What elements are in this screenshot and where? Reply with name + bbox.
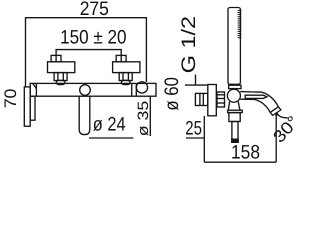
left valve hex nut — [54, 73, 67, 81]
spout slot detail — [245, 95, 267, 98]
wall flange cover — [30, 96, 35, 120]
extension line spout tip — [275, 113, 277, 162]
bar left elbow edge — [35, 83, 37, 96]
spout side view — [240, 92, 281, 116]
svg-text:275: 275 — [80, 0, 109, 20]
hose cone below body — [228, 102, 240, 111]
wall plate side view ø60 — [208, 85, 217, 116]
svg-text:25: 25 — [185, 118, 202, 140]
dimension 275 extension/dim lines — [26, 18, 147, 87]
hose upper cylinder — [229, 113, 240, 122]
leader line for ø 35 — [149, 96, 151, 136]
leader line for ø 24 — [89, 137, 134, 139]
spout cylinder front view — [79, 96, 90, 134]
svg-text:30°: 30° — [269, 112, 300, 146]
hose lip — [228, 110, 243, 112]
body bar front view — [30, 83, 156, 96]
hose tube — [232, 122, 238, 140]
end knob circle ø35 — [136, 82, 147, 93]
hose end fitting — [232, 139, 239, 142]
hose nut adapter — [217, 92, 225, 107]
G1/2 nipple — [195, 93, 207, 105]
left valve escutcheon — [48, 62, 75, 73]
left valve top nut — [51, 55, 61, 61]
svg-text:ø 60: ø 60 — [161, 77, 183, 111]
extension line wall — [203, 116, 205, 162]
svg-text:ø 35: ø 35 — [135, 101, 152, 137]
body circle side view — [227, 89, 240, 102]
right valve dome collar — [121, 80, 130, 84]
shower holder band — [229, 85, 241, 88]
30 degree arrowhead — [275, 113, 278, 116]
wand spray hatches — [238, 10, 242, 37]
right valve escutcheon — [113, 62, 140, 73]
spout end face — [270, 107, 278, 113]
leader line ø 60 — [185, 84, 208, 86]
hand shower wand — [228, 8, 240, 85]
right valve top nut — [116, 55, 126, 61]
svg-text:158: 158 — [231, 142, 260, 164]
spout ball joint circle — [80, 85, 91, 96]
svg-text:70: 70 — [1, 89, 20, 109]
svg-text:G 1/2: G 1/2 — [178, 16, 200, 73]
dimension 25 line — [186, 137, 204, 139]
wall flange plate — [24, 87, 30, 126]
right valve hex nut — [119, 73, 132, 81]
bar joint collar — [131, 83, 133, 96]
dimension 158 line — [204, 161, 276, 163]
svg-text:ø 24: ø 24 — [93, 113, 126, 135]
svg-text:150 ± 20: 150 ± 20 — [60, 26, 127, 48]
30 degree arc — [277, 113, 288, 118]
left valve dome collar — [56, 80, 65, 84]
leader line G 1/2 — [195, 75, 197, 86]
dimension 150 dim line with drops — [56, 50, 121, 62]
